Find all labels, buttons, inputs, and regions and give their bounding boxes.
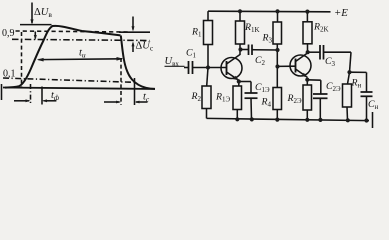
svg-text:Cн: Cн (368, 99, 379, 111)
svg-text:R2: R2 (191, 91, 202, 103)
svg-text:tи: tи (79, 48, 86, 60)
svg-text:tc: tc (143, 91, 150, 103)
svg-text:C1Э: C1Э (255, 82, 270, 94)
svg-text:ΔUc: ΔUc (136, 41, 154, 53)
svg-text:+E: +E (334, 7, 348, 19)
svg-text:R1K: R1K (244, 22, 260, 34)
svg-text:Rн: Rн (351, 78, 362, 90)
svg-text:R2Э: R2Э (287, 93, 302, 105)
svg-text:ΔUв: ΔUв (34, 7, 52, 19)
svg-text:R1Э: R1Э (215, 92, 230, 104)
svg-text:R1: R1 (191, 27, 202, 39)
svg-text:R2K: R2K (313, 22, 329, 34)
svg-text:R4: R4 (261, 97, 272, 109)
svg-text:C1: C1 (186, 48, 197, 60)
svg-text:R3: R3 (262, 33, 273, 45)
svg-text:0,1: 0,1 (3, 69, 16, 80)
svg-text:tф: tф (51, 90, 60, 102)
svg-text:0,9: 0,9 (2, 28, 15, 39)
svg-text:C2Э: C2Э (326, 81, 341, 93)
svg-text:C2: C2 (255, 55, 266, 67)
svg-text:C3: C3 (325, 56, 336, 68)
